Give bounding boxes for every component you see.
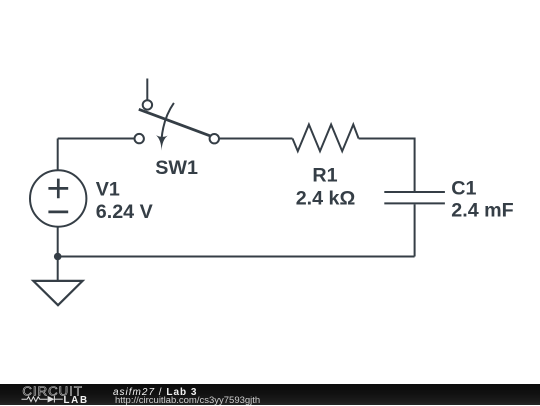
- wire V1 bottom stub: [57, 227, 59, 257]
- wire capacitor bottom stub: [414, 204, 416, 256]
- svg-text:SW1: SW1: [155, 157, 198, 179]
- wire V1 top stub: [57, 139, 59, 171]
- switch SW1: [135, 79, 220, 151]
- node junction dot: [54, 253, 62, 261]
- footer bar: [0, 384, 540, 405]
- svg-text:2.4 kΩ: 2.4 kΩ: [296, 187, 356, 209]
- capacitor C1: [384, 192, 445, 203]
- svg-text:V1: V1: [96, 179, 120, 201]
- wire bottom from ground node to capacitor: [58, 256, 415, 258]
- label SW1: [155, 157, 198, 179]
- resistor R1: [293, 125, 359, 152]
- label R1 value: [296, 164, 356, 209]
- svg-text:R1: R1: [312, 164, 337, 186]
- label V1 value: [96, 179, 153, 223]
- credit text: [115, 384, 260, 406]
- ground: [33, 257, 82, 306]
- voltage source V1: [30, 170, 86, 226]
- wire resistor to top-right corner: [359, 139, 415, 192]
- wire top-left from V1 to switch left terminal: [58, 138, 135, 140]
- label C1 value: [451, 177, 513, 221]
- wire switch to resistor: [219, 138, 292, 140]
- svg-text:6.24 V: 6.24 V: [96, 201, 153, 223]
- svg-text:LAB: LAB: [64, 395, 89, 405]
- svg-text:2.4 mF: 2.4 mF: [451, 200, 513, 222]
- CircuitLab logo: [0, 384, 100, 405]
- svg-text:C1: C1: [451, 177, 476, 199]
